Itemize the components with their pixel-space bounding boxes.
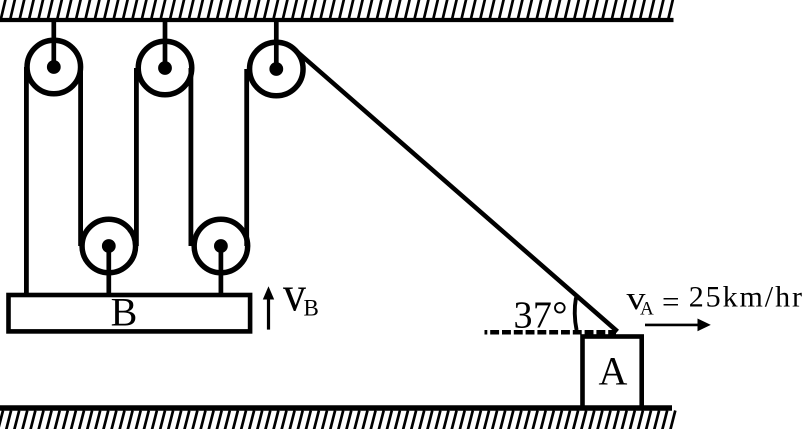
pulley P1 — [27, 40, 81, 94]
pulley P3 — [250, 42, 304, 96]
dashed horizontal reference line — [485, 330, 617, 335]
svg-text:A: A — [640, 299, 654, 320]
svg-text:37°: 37° — [514, 295, 568, 337]
velocity arrow vB — [263, 286, 274, 329]
angle arc — [575, 298, 577, 331]
support wire lower pulley L1 to block B — [106, 246, 111, 297]
svg-text:=: = — [662, 286, 680, 319]
block A — [583, 337, 642, 409]
floor line — [0, 405, 672, 410]
floor hatching — [0, 411, 675, 429]
svg-text:B: B — [111, 289, 138, 334]
rope: pulley P2 right to lower pulley L2 — [188, 68, 193, 246]
block B — [9, 295, 251, 331]
rope: lower pulley L1 to pulley P2 left — [134, 68, 139, 246]
rope: diagonal from pulley P3 to block A — [294, 49, 618, 332]
lower pulley L1 — [82, 219, 136, 273]
velocity arrow vA — [645, 319, 711, 332]
ceiling line — [0, 18, 674, 22]
ceiling hatching — [1, 0, 673, 19]
lower pulley L2 — [194, 219, 248, 273]
label vB — [283, 266, 319, 322]
support wire pulley P2 — [163, 20, 168, 68]
rope: lower pulley L2 to pulley P3 left — [244, 69, 249, 246]
pulley P2 — [138, 41, 192, 95]
svg-text:25km/hr: 25km/hr — [689, 281, 802, 314]
rope: pulley P1 left side down to block B — [24, 67, 29, 295]
support wire pulley P3 — [274, 20, 279, 69]
rope: pulley P1 right to lower pulley L1 — [78, 67, 83, 246]
support wire pulley P1 — [51, 20, 56, 67]
svg-text:B: B — [304, 295, 319, 320]
svg-text:A: A — [599, 348, 628, 393]
support wire lower pulley L2 to block B — [219, 246, 224, 297]
label vA = 25km/hr — [627, 281, 803, 320]
